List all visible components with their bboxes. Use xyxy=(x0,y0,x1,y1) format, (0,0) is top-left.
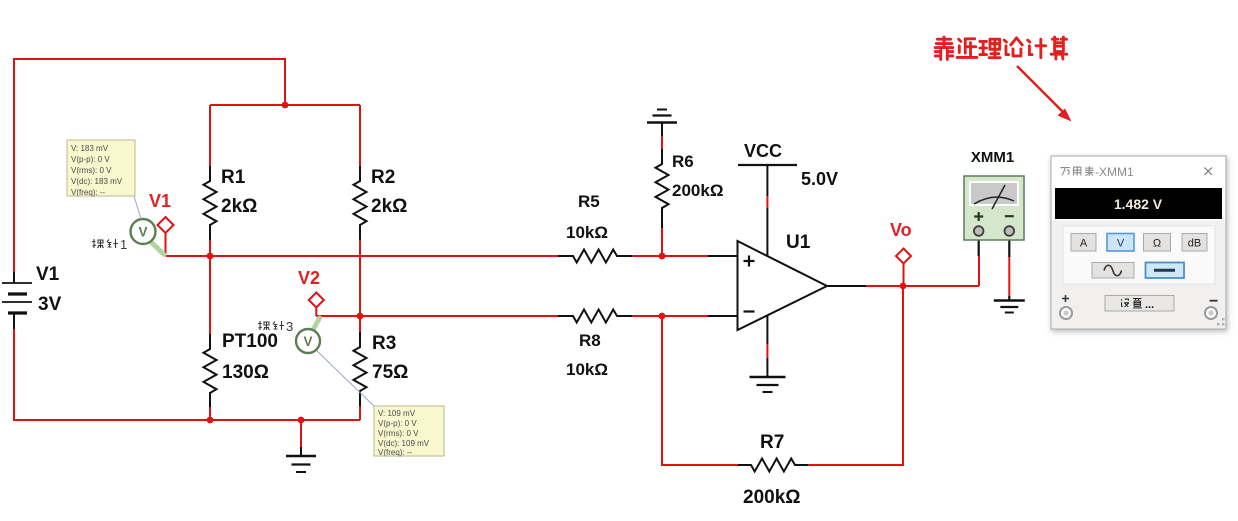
svg-text:3: 3 xyxy=(286,319,293,334)
wire feedback loop xyxy=(662,316,738,465)
wire battery-top loop xyxy=(14,59,285,272)
wire ground stub mid xyxy=(300,420,302,447)
svg-text:V(rms): 0 V: V(rms): 0 V xyxy=(378,429,419,438)
button AC xyxy=(1092,263,1134,279)
wire probe V1 stub xyxy=(165,233,167,256)
wire R7 right to output node xyxy=(808,286,903,465)
node output Vo xyxy=(900,283,907,290)
svg-text:V: 183 mV: V: 183 mV xyxy=(71,144,109,153)
node PT100 bottom xyxy=(207,417,214,424)
ground below XMM minus xyxy=(994,296,1025,313)
svg-text:2kΩ: 2kΩ xyxy=(221,196,257,217)
resistor R6 xyxy=(656,149,669,228)
probe1 name xyxy=(92,239,118,248)
probe V1 green pointer xyxy=(149,240,164,255)
ground mid (bottom rail) xyxy=(286,447,316,472)
wire probe V2 stub xyxy=(315,307,317,316)
svg-text:VCC: VCC xyxy=(744,141,782,161)
probe V2 circle xyxy=(296,329,320,353)
svg-text:V1: V1 xyxy=(36,264,60,285)
svg-text:1: 1 xyxy=(120,237,127,252)
probe V2 green pointer xyxy=(312,318,320,332)
wire R2 bottom to node V2 xyxy=(359,240,361,316)
probe V1 circle xyxy=(131,219,156,244)
settings button xyxy=(1105,296,1174,312)
svg-text:XMM1: XMM1 xyxy=(971,149,1014,166)
button dB xyxy=(1182,234,1207,252)
annotation text 靠近理论计算 xyxy=(935,37,1067,59)
multimeter XMM1 icon xyxy=(964,176,1024,240)
junction node dots xyxy=(207,102,907,424)
svg-text:130Ω: 130Ω xyxy=(222,362,269,383)
resistor R2 xyxy=(354,166,367,240)
opamp U1 input stubs xyxy=(708,256,738,316)
wire R6 bottom lead xyxy=(661,228,663,256)
svg-text:R5: R5 xyxy=(578,192,600,211)
svg-text:V: V xyxy=(303,334,312,349)
node V2 at R2/R3 xyxy=(357,313,364,320)
resistor PT100 xyxy=(204,334,217,407)
wire output row xyxy=(866,285,979,287)
wire PT100 top lead xyxy=(209,256,211,334)
wire XMM plus lead xyxy=(978,256,980,286)
svg-text:V: V xyxy=(1117,238,1125,250)
dialog minus terminal mark xyxy=(1210,300,1218,302)
node bridge top xyxy=(282,102,289,109)
wire XMM minus lead xyxy=(1008,257,1010,296)
svg-text:V(dc): 183 mV: V(dc): 183 mV xyxy=(71,177,123,186)
svg-text:R2: R2 xyxy=(371,167,395,188)
resistor R7 xyxy=(738,459,808,472)
wire bridge top bar xyxy=(210,104,360,106)
VCC supply xyxy=(738,165,797,256)
svg-text:V(p-p): 0 V: V(p-p): 0 V xyxy=(378,419,417,428)
svg-text:V: 109 mV: V: 109 mV xyxy=(378,409,416,418)
svg-text:...: ... xyxy=(1145,299,1154,311)
svg-text:200kΩ: 200kΩ xyxy=(672,181,723,200)
node R6 junction xyxy=(659,253,666,260)
multimeter dialog XMM1 xyxy=(1051,156,1226,329)
battery V1 xyxy=(2,272,32,329)
svg-text:PT100: PT100 xyxy=(222,331,278,352)
wire R1 top lead xyxy=(209,105,211,166)
node V1 at R1/PT100 xyxy=(207,253,214,260)
dialog terminal circles xyxy=(1060,307,1072,319)
svg-text:10kΩ: 10kΩ xyxy=(566,360,608,379)
wire VCC stub red xyxy=(766,196,768,208)
node ground bottom xyxy=(298,417,305,424)
svg-text:Ω: Ω xyxy=(1153,238,1161,250)
svg-text:V(dc): 109 mV: V(dc): 109 mV xyxy=(378,439,430,448)
resistor R5 xyxy=(558,250,632,263)
annotation arrow xyxy=(1017,66,1072,122)
wire node V1 row right to opamp xyxy=(630,255,708,257)
svg-text:5.0V: 5.0V xyxy=(801,169,838,189)
dialog close X xyxy=(1205,168,1213,176)
opamp U1 bottom stem xyxy=(766,316,768,345)
resistor R1 xyxy=(204,166,217,240)
svg-text:R7: R7 xyxy=(760,432,784,453)
button DC selected xyxy=(1146,263,1185,279)
svg-text:-XMM1: -XMM1 xyxy=(1095,165,1134,179)
button V xyxy=(1107,234,1134,252)
svg-text:R6: R6 xyxy=(672,152,694,171)
svg-text:Vo: Vo xyxy=(890,220,912,240)
svg-text:R8: R8 xyxy=(579,331,601,350)
resistor R3 xyxy=(354,332,367,406)
tooltip probe1 readings xyxy=(67,140,141,219)
svg-text:V: V xyxy=(138,225,147,240)
svg-text:V(freq): --: V(freq): -- xyxy=(378,448,413,457)
wire node V1 row left xyxy=(166,255,558,257)
svg-text:V(freq): --: V(freq): -- xyxy=(71,188,106,197)
svg-text:75Ω: 75Ω xyxy=(372,362,408,383)
svg-text:A: A xyxy=(1080,238,1088,250)
probe V2 diamond xyxy=(309,293,324,308)
wire R2 top lead xyxy=(359,105,361,166)
wire Vo stub xyxy=(903,263,905,286)
multimeter XMM1 stubs xyxy=(979,236,1010,257)
svg-text:V2: V2 xyxy=(298,268,320,288)
svg-text:200kΩ: 200kΩ xyxy=(743,487,801,508)
op-amp U1 xyxy=(738,241,828,330)
wire R6 upper stub xyxy=(661,136,663,149)
ground top (above R6, flipped) xyxy=(647,110,677,137)
dialog plus terminal mark xyxy=(1062,295,1069,302)
svg-text:dB: dB xyxy=(1188,238,1201,250)
probe V1 diamond xyxy=(158,217,174,233)
dialog group box xyxy=(1063,226,1215,284)
svg-text:10kΩ: 10kΩ xyxy=(566,223,608,242)
svg-text:U1: U1 xyxy=(786,232,811,253)
wire R3 top lead xyxy=(359,316,361,332)
node R8 feedback junction xyxy=(659,313,666,320)
dialog title xyxy=(1061,166,1094,176)
tooltip probe3 readings xyxy=(317,351,444,457)
probe3 name xyxy=(258,321,284,330)
ground below opamp xyxy=(750,358,786,392)
resistor R8 xyxy=(558,310,632,323)
wire opamp ground stub red xyxy=(766,344,768,358)
dialog display xyxy=(1055,188,1222,219)
dialog resize grip xyxy=(1217,318,1225,326)
wire PT100 bottom lead xyxy=(209,407,211,420)
wire bottom rail xyxy=(14,329,360,420)
svg-text:V(rms): 0 V: V(rms): 0 V xyxy=(71,166,112,175)
wire node V2 row right to opamp xyxy=(630,315,708,317)
svg-text:R3: R3 xyxy=(372,333,396,354)
svg-text:3V: 3V xyxy=(38,294,62,315)
button A xyxy=(1071,234,1096,252)
opamp U1 output stub xyxy=(827,285,866,287)
wire R3 bottom lead xyxy=(359,406,361,420)
svg-text:V(p-p): 0 V: V(p-p): 0 V xyxy=(71,155,110,164)
svg-text:1.482 V: 1.482 V xyxy=(1114,196,1163,212)
svg-text:V1: V1 xyxy=(149,191,171,211)
wire node V2 row left xyxy=(316,315,558,317)
button ohm xyxy=(1144,234,1171,252)
svg-text:R1: R1 xyxy=(221,167,246,188)
svg-text:2kΩ: 2kΩ xyxy=(371,196,407,217)
probe Vo diamond xyxy=(896,249,911,264)
wire R1 bottom to node V1 xyxy=(209,240,211,256)
